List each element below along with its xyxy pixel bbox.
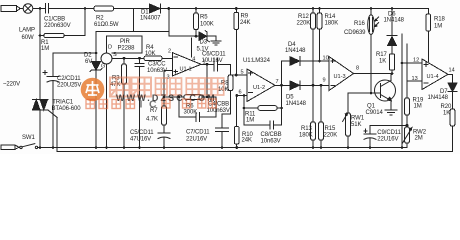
op-amp U1-3 (329, 57, 354, 91)
svg-text:1N4148: 1N4148 (428, 95, 449, 101)
svg-text:C1/CBB: C1/CBB (44, 17, 65, 23)
zener D2 6V (90, 53, 102, 149)
wire D1 bypass loop left leg (132, 9, 134, 32)
node R1 left junction (39, 34, 42, 37)
svg-text:1N4007: 1N4007 (140, 16, 161, 22)
wire ground rail (40, 147, 407, 149)
svg-text:180K: 180K (299, 133, 313, 139)
transistor Q1 C9014 (375, 74, 396, 111)
svg-text:U1-4: U1-4 (427, 74, 439, 80)
svg-text:8: 8 (356, 66, 359, 72)
svg-text:220K: 220K (297, 21, 311, 27)
capacitor C8 (feedback) (244, 121, 282, 129)
node C junction (95, 52, 98, 55)
svg-text:60W: 60W (22, 35, 34, 41)
svg-text:4: 4 (192, 57, 195, 63)
svg-text:7: 7 (276, 79, 279, 85)
potentiometer RW2 (403, 127, 412, 148)
resistor R7 (162, 106, 167, 133)
svg-text:C5/CD11: C5/CD11 (130, 130, 154, 136)
resistor R12 (311, 7, 316, 87)
wire mains left vertical (lamp node down) (39, 9, 41, 100)
resistor R3 (122, 57, 127, 149)
capacitor C4 (216, 114, 229, 149)
svg-text:G: G (101, 64, 105, 70)
capacitor C5 (electrolytic) (158, 133, 170, 149)
svg-text:C8/CBB: C8/CBB (261, 132, 282, 138)
switch SW1 (20, 144, 40, 149)
svg-text:C: C (149, 99, 157, 111)
svg-text:R14: R14 (325, 14, 336, 20)
svg-text:D: D (108, 45, 112, 51)
capacitor C6 (coupling) (214, 58, 231, 71)
plug P2 (mains input bottom) (1, 145, 19, 149)
svg-text:D2: D2 (84, 53, 92, 59)
svg-text:14: 14 (449, 68, 455, 74)
wire +6V to R5/D3 node (169, 35, 199, 37)
wire C1 to node A (49, 8, 85, 10)
wire U1-4 pin12 input (402, 62, 422, 64)
PIR sensor element (101, 49, 112, 64)
capacitor C3 (135, 57, 144, 149)
svg-text:22U16V: 22U16V (377, 137, 398, 143)
svg-text:RW1: RW1 (351, 116, 365, 122)
svg-text:51K: 51K (351, 122, 361, 128)
triac TRIAC1 BTA06-600 (33, 100, 58, 152)
svg-text:6V: 6V (85, 59, 92, 65)
svg-text:22U16V: 22U16V (186, 137, 207, 143)
svg-text:R17: R17 (376, 52, 387, 58)
wire D1 to rail / node B junction (161, 8, 429, 10)
svg-text:SW1: SW1 (22, 135, 35, 141)
photoresistor R16 CD9639 (368, 7, 379, 94)
zener D3 5.1V (199, 31, 216, 42)
svg-text:10U16V: 10U16V (202, 58, 223, 64)
svg-text:300K: 300K (184, 110, 198, 116)
wire node C to C2 (53, 52, 96, 54)
PIR module box P2288 (107, 36, 143, 53)
svg-text:P2288: P2288 (118, 46, 136, 52)
wire lamp to C1 (33, 8, 45, 10)
svg-text:C9/CD11: C9/CD11 (377, 130, 401, 136)
wire pin2 node down (163, 71, 165, 107)
svg-text:2M: 2M (415, 136, 423, 142)
lamp LAMP 60W (23, 4, 33, 14)
svg-text:R2: R2 (96, 16, 104, 22)
diode D5 1N4148 (290, 81, 329, 90)
wire plug to lamp (21, 8, 24, 10)
svg-text:1N4148: 1N4148 (286, 101, 307, 107)
svg-text:R9: R9 (241, 14, 249, 20)
svg-text:R5: R5 (200, 15, 208, 21)
resistor R10 (234, 96, 239, 149)
svg-text:220n630V: 220n630V (44, 23, 71, 29)
resistor R1 (40, 9, 85, 38)
svg-text:180K: 180K (325, 21, 339, 27)
wire +6V corner down to node C (95, 32, 97, 54)
svg-text:1N4148: 1N4148 (384, 18, 405, 24)
op-amp U1-2 (247, 69, 275, 102)
svg-text:1K: 1K (379, 59, 386, 65)
resistor R6 (feedback) (164, 64, 216, 99)
wire output up to D4 (281, 61, 283, 85)
svg-text:R12: R12 (298, 14, 309, 20)
svg-text:S: S (113, 52, 117, 58)
svg-text:C7/CD11: C7/CD11 (186, 130, 210, 136)
ground symbol (Q1 emitter) (385, 110, 397, 115)
svg-text:24K: 24K (240, 20, 250, 26)
svg-text:220K: 220K (324, 133, 338, 139)
svg-text:47U16V: 47U16V (130, 137, 151, 143)
resistor R17 (389, 54, 394, 75)
resistor R20 (450, 109, 455, 152)
resistor R19 (405, 98, 410, 127)
svg-text:12: 12 (413, 58, 419, 64)
svg-text:TRIAC1: TRIAC1 (52, 100, 74, 106)
svg-text:5: 5 (241, 70, 244, 76)
svg-text:R18: R18 (434, 17, 445, 23)
wire C6 out corner to pin5 (231, 64, 248, 75)
wire U1-2 output (275, 84, 290, 86)
resistor R13 (311, 85, 316, 149)
resistor R14 (317, 7, 322, 62)
svg-text:13: 13 (412, 76, 418, 82)
resistor R11 (feedback) (243, 85, 283, 125)
svg-text:C3/CC: C3/CC (148, 62, 166, 68)
svg-text:BTA06-600: BTA06-600 (52, 106, 82, 112)
wire rail drop at x402 (401, 34, 404, 149)
svg-text:~220V: ~220V (3, 82, 20, 88)
svg-text:CD9639: CD9639 (344, 30, 366, 36)
watermark slogan characters (86, 99, 216, 109)
svg-text:R13: R13 (301, 126, 312, 132)
capacitor C1 (46, 4, 49, 14)
svg-text:U1-3: U1-3 (334, 74, 346, 80)
ground symbol (D3) (211, 36, 221, 45)
svg-text:1N4148: 1N4148 (285, 48, 306, 54)
svg-text:C2/CD11: C2/CD11 (57, 76, 81, 82)
svg-text:1M: 1M (41, 46, 49, 52)
svg-text:U1-2: U1-2 (253, 85, 265, 91)
wire +6V line (loop bottom) (96, 31, 169, 33)
wire U1-1 pin4 supply stub (191, 38, 193, 57)
svg-text:R15: R15 (325, 126, 336, 132)
wire U1-1 output (201, 63, 214, 65)
resistor R15 (319, 84, 324, 149)
svg-text:C6/CD11: C6/CD11 (202, 52, 226, 58)
svg-text:U1-1: U1-1 (180, 67, 192, 73)
capacitor C7 (parallel) (178, 96, 216, 122)
svg-text:10n63V: 10n63V (261, 139, 281, 145)
wire sensor G lead (106, 64, 108, 148)
wire base node (RW1 top to Q1 base) (348, 92, 381, 94)
svg-text:2: 2 (168, 49, 171, 55)
svg-text:4.7K: 4.7K (146, 117, 158, 123)
svg-text:D3: D3 (200, 40, 208, 46)
svg-text:Q1: Q1 (367, 104, 376, 110)
svg-text:1K: 1K (443, 111, 450, 117)
wire U1-4 output pin14 (448, 74, 453, 83)
diode D1 1N4007 (150, 4, 161, 13)
wire node B down leg (168, 9, 170, 37)
svg-text:10n63V: 10n63V (147, 68, 167, 74)
resistor R5 (194, 7, 199, 37)
svg-text:D5: D5 (286, 95, 294, 101)
svg-text:LAMP: LAMP (19, 28, 35, 34)
wire U1-4 pin13 input (407, 44, 422, 98)
svg-text:10: 10 (323, 56, 329, 62)
svg-text:C9014: C9014 (366, 110, 384, 116)
svg-text:PIR: PIR (120, 39, 130, 45)
watermark logo disc (81, 78, 105, 102)
wire node A to R2 (85, 8, 94, 10)
svg-text:220U25V: 220U25V (57, 83, 81, 89)
resistor R8 (222, 75, 233, 114)
svg-text:9: 9 (323, 78, 326, 84)
svg-text:1M: 1M (434, 24, 442, 30)
capacitor C2 (electrolytic) (43, 53, 59, 149)
svg-text:R16: R16 (354, 21, 365, 27)
potentiometer RW1 (343, 93, 351, 149)
svg-text:100K: 100K (200, 22, 214, 28)
node A junction (84, 7, 87, 10)
wire U1-2 pin6 input (237, 95, 247, 97)
diode D6 1N4148 (387, 7, 397, 54)
plug P1 (mains input top) (1, 6, 21, 12)
svg-text:100n63V: 100n63V (207, 108, 230, 114)
svg-text:61Ω0.5W: 61Ω0.5W (94, 22, 119, 28)
diode D4 1N4148 (290, 57, 329, 66)
resistor R9 (234, 7, 239, 76)
wire U1-1 pin3 input (164, 70, 172, 72)
resistor R4 (144, 56, 172, 61)
wire U1-3 output (354, 73, 393, 75)
svg-text:10K: 10K (145, 51, 155, 57)
svg-text:6: 6 (239, 90, 242, 96)
svg-text:I: I (140, 99, 143, 111)
svg-text:U1:LM324: U1:LM324 (243, 58, 271, 64)
watermark big characters (110, 78, 151, 97)
resistor R18 (426, 9, 431, 62)
svg-text:1M: 1M (414, 104, 422, 110)
wire sensor S output (112, 57, 144, 59)
svg-text:24K: 24K (242, 138, 252, 144)
op-amp U1-1 (172, 53, 201, 76)
svg-text:1M: 1M (246, 118, 254, 124)
svg-text:R20: R20 (441, 104, 452, 110)
diode D7 1N4148 (448, 83, 457, 109)
op-amp U1-4 (422, 59, 448, 90)
capacitor C9 (electrolytic) (364, 124, 409, 149)
resistor R2 (94, 6, 114, 11)
wire R2 to D1 (114, 8, 150, 10)
wire gate return rail (57, 151, 452, 153)
